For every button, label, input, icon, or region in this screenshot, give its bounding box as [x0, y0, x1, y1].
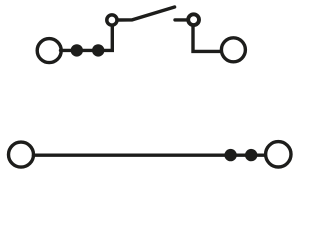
contact circle top-right: [188, 14, 199, 25]
knife switch blade (open): [118, 7, 174, 20]
wire bottom rail: [34, 153, 266, 156]
test socket dot 1 top: [71, 44, 83, 56]
terminal circle top-right: [221, 38, 245, 62]
test socket dot 2 top: [92, 44, 104, 56]
test socket dot 1 bottom: [224, 149, 236, 161]
fixed contact tick: [175, 18, 187, 21]
terminal circle bottom-right: [266, 142, 291, 167]
terminal circle bottom-left: [9, 142, 34, 167]
test socket dot 2 bottom: [245, 149, 257, 161]
wire top rail with riser to knife pivot: [61, 25, 113, 50]
pivot circle of knife disconnect: [107, 15, 117, 25]
wire drop from contact circle to right terminal: [193, 26, 221, 52]
terminal circle top-left: [37, 39, 61, 63]
